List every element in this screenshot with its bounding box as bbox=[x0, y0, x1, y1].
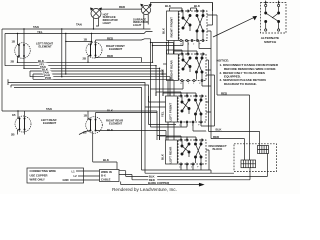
wire PUR bus 7 bbox=[33, 78, 174, 80]
surface indicator light L2 bbox=[141, 4, 151, 29]
wire long bottom collector y170 bbox=[142, 170, 235, 173]
arrow to alternate switch bbox=[213, 16, 257, 37]
wire E2 2B down to BLK y134.5 bbox=[18, 130, 20, 135]
svg-text:RED: RED bbox=[213, 135, 219, 139]
svg-text:GND: GND bbox=[63, 178, 69, 182]
label LEFT FRONT ELEMENT bbox=[36, 42, 53, 49]
wire E4 down to bottom BLK bbox=[92, 131, 94, 162]
wire E4 1B up to y111 bbox=[88, 111, 91, 120]
right rear element E4 bbox=[86, 117, 103, 134]
wire left riser x2 bbox=[1, 29, 3, 111]
wire BLK bottom bus bbox=[126, 154, 268, 177]
svg-text:ELEMENT: ELEMENT bbox=[109, 47, 122, 51]
wire riser x33 bbox=[32, 74, 34, 79]
label PUR bbox=[45, 76, 54, 80]
switch S4 LEFT REAR bbox=[166, 139, 207, 165]
svg-text:TAN: TAN bbox=[76, 23, 82, 27]
wire trunk x157 tan down bbox=[156, 111, 158, 136]
wire trunk x148.5 bbox=[148, 96, 150, 122]
svg-text:RED: RED bbox=[221, 91, 227, 95]
wire BLK top jumpers S1 bbox=[170, 8, 197, 11]
wire S4 bottom stubs bbox=[181, 164, 201, 170]
wire S1 right stubs to risers bbox=[207, 3, 217, 139]
label TAN bbox=[43, 71, 52, 75]
wire E4 bottom BLK right bbox=[96, 130, 167, 132]
wire channel gap connectors bbox=[168, 41, 174, 141]
svg-text:YEL: YEL bbox=[161, 111, 165, 117]
wire E1 right bar up to TAN bus bbox=[23, 29, 25, 45]
label HOT SURFACE INDICATOR LIGHT bbox=[103, 12, 118, 24]
wire RED from E3 bottom right bbox=[96, 56, 142, 63]
svg-text:B-X: B-X bbox=[101, 174, 106, 178]
wire trunk x173.5 bbox=[173, 43, 175, 55]
svg-text:TAN: TAN bbox=[46, 107, 52, 111]
wire S3 left stubs bbox=[145, 96, 166, 107]
svg-text:1B: 1B bbox=[84, 37, 88, 41]
wire S4 left stubs bbox=[157, 136, 166, 141]
wire trunk x152.5 bbox=[151, 43, 153, 128]
wire S2 left stubs bbox=[163, 63, 167, 65]
wire RED jog from lights area bbox=[142, 39, 174, 43]
svg-text:2B: 2B bbox=[11, 59, 15, 63]
wires box1 to box2 bbox=[70, 171, 100, 180]
svg-text:1B: 1B bbox=[12, 113, 16, 117]
wire steps from cable box bbox=[119, 171, 132, 185]
wire RED y138.6 to disconnect bbox=[211, 139, 245, 160]
wire trunk x163 bbox=[162, 71, 164, 96]
label LEFT REAR ELEMENT bbox=[41, 118, 56, 125]
wire BLK from E4 bottom to cable box bbox=[93, 162, 117, 170]
svg-text:BLK: BLK bbox=[165, 4, 172, 8]
label RIGHT REAR ELEMENT bbox=[106, 119, 123, 126]
svg-text:USE COPPER: USE COPPER bbox=[30, 173, 48, 177]
svg-text:DIAGRAM TO RANGE.: DIAGRAM TO RANGE. bbox=[224, 82, 257, 86]
svg-text:BLK: BLK bbox=[194, 4, 201, 8]
wire TAN top bus bbox=[2, 28, 151, 30]
wire riser x8 bbox=[8, 79, 11, 87]
wire E2 right bar up bbox=[24, 111, 26, 119]
wire E1 2B down to BLK bus bbox=[18, 56, 20, 62]
wire RED between lights bbox=[101, 8, 142, 10]
svg-text:WIRE ONLY: WIRE ONLY bbox=[30, 177, 45, 181]
wire RED bottom bus bbox=[132, 168, 250, 180]
connecting wire box bbox=[27, 168, 84, 183]
wire E2 right bar down bbox=[24, 130, 26, 135]
svg-text:BLK: BLK bbox=[107, 108, 114, 112]
left front element E1 bbox=[15, 43, 31, 59]
svg-text:2B: 2B bbox=[83, 57, 87, 61]
wire riser x65.8 YEL link bbox=[65, 34, 67, 75]
wire S4 top stubs bbox=[160, 136, 197, 140]
wire riser x61.8 TAN link bbox=[61, 29, 63, 77]
wire BARE COPPER with arrow bbox=[121, 183, 204, 186]
wire E1 right bar down bbox=[23, 56, 25, 68]
wire riser x30 bbox=[29, 71, 31, 77]
wire E4 right bar up bbox=[96, 113, 158, 120]
wire YEL top bus bbox=[5, 32, 153, 34]
svg-text:1B: 1B bbox=[12, 39, 16, 43]
svg-text:1B: 1B bbox=[84, 113, 88, 117]
svg-text:RED: RED bbox=[119, 5, 125, 9]
svg-text:ELEMENT: ELEMENT bbox=[39, 45, 52, 49]
wire in b-x cable box bbox=[100, 170, 120, 182]
svg-text:BLK: BLK bbox=[162, 27, 166, 34]
svg-text:ELEMENT: ELEMENT bbox=[109, 122, 122, 126]
left rear element E2 bbox=[15, 116, 31, 132]
wire BLK bus 4 bbox=[30, 70, 163, 72]
svg-text:YEL: YEL bbox=[37, 30, 43, 34]
svg-text:TAN: TAN bbox=[33, 25, 39, 29]
svg-text:LEFT REAR: LEFT REAR bbox=[169, 146, 173, 164]
terminal block t1 bbox=[241, 160, 256, 168]
wire RED from E3 top right bbox=[96, 40, 142, 45]
svg-text:Rendered by LeadVenture, Inc.: Rendered by LeadVenture, Inc. bbox=[112, 187, 177, 192]
wire S2 bottom stubs bbox=[151, 81, 212, 89]
svg-text:DISCONNECT: DISCONNECT bbox=[209, 144, 228, 148]
svg-text:BLK: BLK bbox=[103, 158, 110, 162]
wire TAN bus bbox=[24, 67, 160, 69]
wire YEL bus bbox=[5, 65, 156, 67]
svg-text:BLK: BLK bbox=[216, 128, 223, 132]
wire E3 2B down bbox=[88, 56, 91, 63]
wire y124.5 connector bbox=[149, 122, 177, 125]
svg-text:SWITCH: SWITCH bbox=[264, 40, 277, 44]
wire nested corner 3 bbox=[14, 88, 142, 171]
wire E4 2B joins left rear BLK bbox=[79, 131, 91, 135]
label BARE COPPER bbox=[148, 181, 171, 185]
wire nested corner 2 bbox=[11, 85, 149, 96]
label SURFACE INDICATOR LIGHT bbox=[133, 17, 148, 27]
svg-text:WIRE IN: WIRE IN bbox=[101, 170, 112, 174]
wire from L2 up over to right riser bbox=[151, 3, 213, 12]
wire E1 1B up to YEL bus bbox=[18, 34, 20, 46]
svg-text:CONNECTING WIRE: CONNECTING WIRE bbox=[30, 169, 57, 173]
svg-text:L1: L1 bbox=[72, 169, 76, 173]
junction dots bbox=[17, 62, 18, 63]
wire S2 right stubs bbox=[206, 60, 215, 126]
wire TAN bus 5 bbox=[33, 73, 167, 75]
wire trunk x156 bbox=[155, 66, 157, 96]
right front element E3 bbox=[86, 42, 102, 58]
wire E2 1B up to TAN y111 bbox=[18, 111, 20, 119]
wire S1 bottom exits bbox=[153, 41, 212, 51]
label RED bbox=[148, 178, 157, 182]
wire left riser x5 bbox=[4, 34, 6, 66]
svg-text:L2: L2 bbox=[74, 174, 78, 178]
wire riser x208.5 down bbox=[208, 60, 210, 131]
svg-text:BLK: BLK bbox=[161, 68, 165, 75]
wire trunk x166.5 bbox=[166, 43, 168, 55]
hot surface indicator light L1 bbox=[91, 8, 102, 29]
svg-text:2B: 2B bbox=[11, 132, 15, 136]
svg-text:LIGHT: LIGHT bbox=[103, 21, 112, 25]
notice text block bbox=[217, 59, 279, 87]
wire S2 top stubs bbox=[167, 50, 198, 54]
wire S3 top stubs bbox=[156, 92, 196, 96]
wire S3 bottom exits bbox=[151, 122, 209, 131]
wire y111 bus bbox=[2, 110, 157, 112]
label ALTERNATE SWITCH bbox=[261, 36, 279, 44]
wire trunk x145 bbox=[144, 96, 146, 173]
switch S1 RIGHT FRONT bbox=[167, 10, 208, 42]
wire PUR bus 6 bbox=[30, 76, 170, 78]
svg-text:BARE COPPER: BARE COPPER bbox=[148, 181, 170, 185]
wire E3 1B up to buses bbox=[91, 34, 92, 45]
wire BLK y131.4 to disconnect bbox=[209, 131, 260, 146]
switch S2 RIGHT REAR bbox=[167, 53, 207, 82]
svg-text:RIGHT FRONT: RIGHT FRONT bbox=[170, 17, 174, 38]
label RIGHT FRONT ELEMENT bbox=[106, 44, 125, 51]
svg-text:LIGHT: LIGHT bbox=[133, 23, 142, 27]
label BLK bbox=[148, 174, 157, 178]
wire S4 right stub down bbox=[206, 150, 209, 170]
label PUR bbox=[44, 73, 53, 77]
label TAN bbox=[40, 65, 49, 69]
wire link bus to E3 area bbox=[66, 41, 92, 43]
wire RED y95 to disconnect bbox=[217, 95, 250, 160]
wire BLK bus bbox=[18, 61, 153, 63]
svg-text:BLK: BLK bbox=[161, 153, 165, 160]
wire trunk x170 bbox=[169, 77, 171, 96]
svg-text:LEFT FRONT: LEFT FRONT bbox=[169, 103, 173, 122]
alternate switch bbox=[261, 1, 287, 33]
svg-text:CABLE: CABLE bbox=[101, 177, 111, 181]
svg-text:BLOCK: BLOCK bbox=[213, 147, 223, 151]
wire S3 right stubs bbox=[206, 102, 211, 112]
wire nested corner 1 bbox=[8, 83, 145, 97]
label BLK bbox=[42, 68, 51, 72]
label DISCONNECT BLOCK bbox=[209, 144, 228, 151]
svg-text:NOTICE:: NOTICE: bbox=[217, 59, 230, 63]
wire x166 down to sw4 bbox=[165, 131, 167, 141]
label YEL bbox=[39, 62, 48, 66]
svg-text:PUR: PUR bbox=[45, 76, 52, 80]
wire trunk x159.5 bbox=[159, 68, 161, 140]
svg-text:RIGHT REAR: RIGHT REAR bbox=[170, 60, 174, 80]
switch S3 LEFT FRONT bbox=[166, 95, 207, 123]
svg-text:ELEMENT: ELEMENT bbox=[43, 121, 56, 125]
label BLK bbox=[38, 59, 47, 63]
terminal block t2 bbox=[258, 146, 269, 154]
disconnect block dashed box bbox=[234, 144, 277, 172]
